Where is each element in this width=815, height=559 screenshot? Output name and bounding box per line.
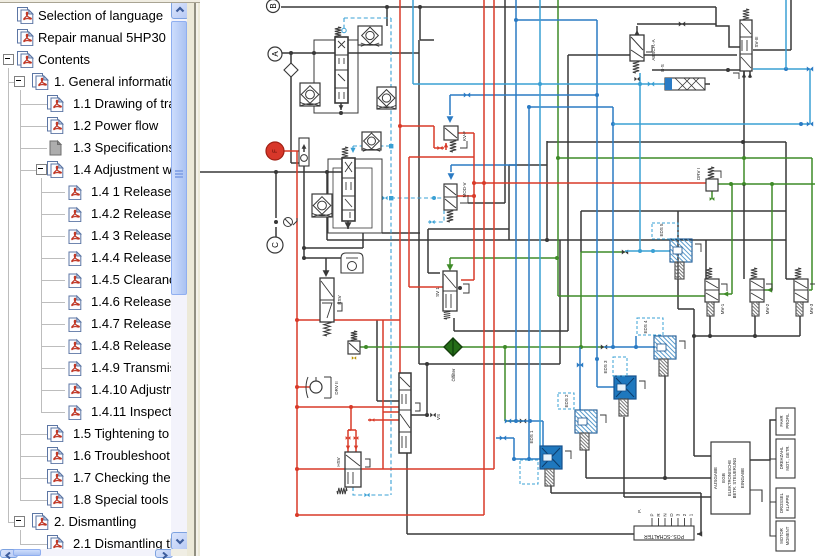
- wire y=240 long bus: [327, 239, 786, 241]
- wire cyan x=540: [539, 0, 541, 459]
- svg-text:EDS 5: EDS 5: [659, 223, 664, 237]
- check box CB5: [362, 132, 381, 150]
- wire SV1 drain to y=331: [453, 318, 455, 331]
- node B: [267, 0, 280, 13]
- valve 1 spool: [335, 37, 348, 103]
- info box FAHR PROFIL: [776, 408, 795, 435]
- wire dashed valve2 pilot y=146: [353, 145, 391, 147]
- top window border: [0, 0, 200, 3]
- svg-text:POS.-SCHALTER: POS.-SCHALTER: [644, 533, 684, 539]
- wire x=678: [677, 211, 679, 309]
- wire dashed MOD-V pilot: [428, 210, 444, 222]
- wire EGB right connectors: [750, 420, 776, 460]
- check box CB4: [312, 194, 332, 217]
- svg-text:DREHZAHL: DREHZAHL: [779, 446, 784, 469]
- wire y=142: [547, 141, 786, 143]
- wire MV-3 top: [785, 142, 787, 279]
- svg-text:EINGABE: EINGABE: [740, 468, 745, 488]
- wire enclosure ext y=233: [382, 232, 420, 234]
- solenoid valve EDS 4: [654, 336, 676, 359]
- valve DRV I: [706, 179, 718, 191]
- wire y=258: [304, 257, 341, 259]
- wire red x=494: [493, 0, 495, 469]
- wire SV1 right port: [458, 286, 462, 290]
- pump DRV II: [310, 381, 322, 393]
- wire MV-1 arm: [709, 316, 711, 336]
- wire red y=148 KV-F: [434, 147, 444, 149]
- svg-text:R: R: [656, 513, 661, 517]
- svg-text:A: A: [271, 51, 280, 57]
- wire blue x=529: [528, 107, 530, 459]
- wire x=304 drop: [303, 166, 305, 258]
- check box CB2: [300, 83, 320, 106]
- wire VS stub: [426, 364, 428, 415]
- wire red x=484: [483, 0, 485, 515]
- wire red F out: [284, 150, 299, 152]
- wire y=493: [551, 492, 701, 494]
- solenoid valve EDS 5: [670, 239, 692, 262]
- wire blue y=421: [508, 420, 543, 422]
- wire SV-III drain x=744 dark: [743, 70, 745, 158]
- wire blue KV-F arrow: [449, 95, 451, 115]
- F check component: [299, 138, 309, 166]
- wire green x=505: [504, 347, 506, 421]
- wire EDS3 arm drop: [623, 417, 625, 497]
- svg-text:VS: VS: [436, 414, 441, 420]
- solenoid valve EDS 1: [540, 446, 562, 469]
- wire green SV1 arrow: [449, 258, 451, 266]
- svg-text:2: 2: [682, 513, 687, 516]
- wire blue EDS2 feed x=580: [579, 347, 581, 410]
- wire x=419 long: [418, 40, 420, 364]
- wire x=327: [326, 172, 328, 240]
- valve 2 spool: [342, 158, 355, 221]
- wire HD drain x=407: [406, 453, 408, 534]
- wire RSV feed arrow: [325, 258, 327, 273]
- svg-text:EGB: EGB: [721, 473, 726, 483]
- main pressure valve HD: [399, 373, 411, 453]
- solenoid valve MV-2: [750, 279, 764, 302]
- check box CB3: [377, 87, 396, 109]
- valve KV-F: [444, 126, 458, 140]
- oil filter diamond: [444, 338, 462, 356]
- wire red y=196 MOD-V: [457, 195, 474, 197]
- wire y=229: [428, 228, 509, 230]
- wire green main y=347: [360, 346, 604, 348]
- svg-text:B-S: B-S: [660, 64, 665, 72]
- wire SV-III right top x=791: [790, 0, 792, 50]
- svg-text:MV-3: MV-3: [809, 303, 814, 314]
- wire x=744 to MV-2 top: [743, 184, 745, 279]
- wire red x=400: [399, 0, 401, 373]
- wire dashed y=198: [391, 197, 444, 199]
- wire blue y=20: [516, 19, 597, 21]
- svg-text:MV-2: MV-2: [765, 303, 770, 314]
- wire red x=383: [382, 320, 384, 469]
- wire x=744 green link: [743, 158, 745, 184]
- svg-text:MOD-V: MOD-V: [462, 183, 467, 198]
- wire red trunk x=297: [296, 166, 298, 515]
- wire green y=158: [558, 157, 812, 159]
- valve 1 drain: [340, 103, 342, 110]
- svg-text:MOTOR: MOTOR: [779, 528, 784, 544]
- valve WK: [348, 341, 360, 354]
- info box DROSSELKLAPPE: [776, 488, 795, 518]
- svg-text:DROSSEL: DROSSEL: [779, 492, 784, 513]
- wire y=309: [678, 308, 694, 310]
- wire blue stub y=438: [496, 437, 514, 439]
- svg-text:SV-III: SV-III: [754, 36, 759, 47]
- wire red y=126: [400, 125, 434, 127]
- wire green x=581: [580, 252, 582, 347]
- wire SV-III left drain y=70: [652, 69, 740, 71]
- wire cyan x=413: [412, 0, 414, 84]
- node A: [268, 47, 282, 61]
- wire y=55 to SV-III: [568, 54, 737, 56]
- valve 1 spring: [335, 27, 341, 37]
- wire blue EDS4 feed y=347: [604, 346, 655, 348]
- wire dashed valve1 pilot: [343, 18, 345, 28]
- svg-text:PROFIL: PROFIL: [785, 413, 790, 429]
- solenoid valve MV-1: [705, 279, 719, 302]
- wire blue y=95 KV-F feed: [450, 94, 597, 96]
- wire green DRV I drain: [711, 191, 713, 199]
- HD bracket: [415, 403, 420, 411]
- svg-text:MOT., GETR.: MOT., GETR.: [785, 445, 790, 470]
- wire sump line y=534: [407, 533, 634, 535]
- breather symbol above C: [284, 218, 293, 227]
- wire A-line y=53: [282, 52, 419, 54]
- valve SV-III: [740, 20, 752, 71]
- valve RSV bracket: [337, 303, 342, 311]
- wire EDS2 arm drop: [585, 450, 587, 478]
- wire y=248: [304, 247, 363, 249]
- wire red y=469: [297, 468, 494, 470]
- svg-text:MOMENT: MOMENT: [785, 526, 790, 545]
- svg-text:B: B: [269, 3, 278, 8]
- wire green DRV I out y=184: [718, 183, 815, 185]
- wire stub x=387: [386, 7, 388, 26]
- wire y=172: [200, 171, 342, 173]
- wire B to SV-III elbow: [716, 7, 740, 47]
- wire MV-2 arm: [754, 316, 756, 336]
- wire blue y=459 EDS1 feed: [514, 458, 540, 460]
- svg-text:DRV II: DRV II: [334, 381, 339, 394]
- wire x=581 upper: [580, 211, 582, 252]
- wire green y=421: [505, 420, 523, 422]
- info box MOTORMOMENT: [776, 521, 795, 551]
- wire blue y=69: [753, 68, 810, 70]
- wire red HSV pilots: [350, 407, 352, 430]
- svg-text:P: P: [650, 513, 655, 516]
- wire x=505: [504, 0, 506, 203]
- wire blue x=636 pilot: [635, 336, 637, 347]
- vertical scrollbar: [171, 0, 187, 549]
- wire red y=157: [409, 156, 474, 158]
- wire blue x=516: [515, 0, 517, 421]
- wire red y=183 to DRV I: [474, 182, 706, 184]
- wire red HD stubs: [383, 411, 399, 413]
- svg-text:Ölfilter: Ölfilter: [450, 368, 456, 382]
- wire green y=252 EDS5 feed: [581, 251, 625, 253]
- wire node C riser x=276: [275, 172, 277, 218]
- svg-text:KV-F: KV-F: [462, 131, 467, 141]
- wire red y=515: [297, 514, 484, 516]
- svg-text:EDS 4: EDS 4: [643, 320, 648, 334]
- solenoid valve MV-3: [794, 279, 808, 302]
- node F: [266, 142, 284, 160]
- wire x=509: [508, 165, 510, 240]
- svg-text:N: N: [663, 513, 668, 516]
- wire dashed HSV pilot: [353, 487, 391, 495]
- valve MOD-V: [444, 184, 457, 210]
- wire y=364: [419, 363, 560, 365]
- wire blue y=107: [529, 106, 613, 108]
- svg-text:FAHR: FAHR: [779, 415, 784, 426]
- wire y=478 to EGB: [586, 477, 711, 479]
- svg-text:HSV: HSV: [336, 457, 341, 466]
- wire green x=558: [557, 0, 559, 296]
- svg-text:D: D: [669, 513, 674, 517]
- wire blue x=786 top: [785, 0, 787, 69]
- svg-text:EDS 2: EDS 2: [564, 394, 569, 408]
- horizontal scrollbar: [0, 549, 171, 556]
- node C: [267, 237, 283, 253]
- wire MV-3 arm: [799, 316, 801, 336]
- valve HSV: [345, 452, 361, 487]
- wire green x=732 to MV-1: [731, 184, 733, 294]
- wire cyan y=251 EDS5 feed: [625, 250, 670, 252]
- wire green y=258 SV1 feed: [450, 257, 558, 259]
- wire EDS1 arm drop: [550, 485, 552, 493]
- svg-text:BETR. STEUERUNG: BETR. STEUERUNG: [732, 457, 737, 498]
- position switch POS.-SCHALTER: [634, 526, 694, 540]
- wire MV solenoid bus y=336: [694, 335, 800, 337]
- wire A branch down x=291: [290, 53, 292, 163]
- wire red y=320: [297, 319, 400, 321]
- wire x=694 to EGB: [693, 309, 695, 456]
- wire red x=434 KV-F: [433, 126, 435, 148]
- wire blue x=613: [612, 107, 614, 347]
- wire blue EDS3 feed y=387: [597, 386, 614, 388]
- wire x=560: [559, 240, 561, 364]
- wire red y=407: [297, 406, 399, 408]
- wire stub x=420: [419, 7, 421, 40]
- wire blue x=810: [809, 69, 811, 124]
- svg-text:KLAPPE: KLAPPE: [785, 495, 790, 512]
- svg-text:AUSGABE: AUSGABE: [713, 467, 718, 489]
- wire red DRV II stub: [297, 386, 310, 388]
- svg-text:3: 3: [676, 513, 681, 516]
- wire x=547: [546, 141, 548, 240]
- valve SV 1: [443, 271, 457, 311]
- solenoid valve EDS 3: [614, 376, 636, 399]
- svg-text:MV-1: MV-1: [720, 303, 725, 314]
- info box DREHZAHL: [776, 439, 795, 478]
- wire x=377 RSV to HD: [376, 320, 378, 401]
- svg-text:EDS 1: EDS 1: [529, 430, 534, 444]
- wire POS link: [697, 533, 701, 535]
- svg-text:1: 1: [689, 513, 694, 516]
- wire valve2 drain: [347, 221, 349, 229]
- svg-text:DRV I: DRV I: [696, 168, 701, 180]
- panel separator: [187, 0, 200, 556]
- wire red y=280 SV1: [461, 279, 474, 281]
- wire y=211: [581, 210, 786, 212]
- valve 2 enclosure: [328, 159, 382, 233]
- wire B-line y=7: [281, 6, 716, 8]
- ECU box EGB: [711, 442, 750, 514]
- valve ABSCH.-A: [630, 35, 644, 61]
- wire blue x=597: [596, 20, 598, 387]
- svg-text:SV 1: SV 1: [435, 287, 440, 297]
- wire MV-1 top: [705, 240, 707, 279]
- accumulator D-S: [665, 78, 705, 90]
- hydraulic schematic ZF 5HP30: [200, 0, 815, 556]
- wire EDS4 arm drop: [664, 375, 666, 478]
- svg-text:C: C: [271, 242, 280, 248]
- converter symbol: [341, 253, 363, 273]
- wire blue MOD-V feed y=165: [451, 164, 517, 166]
- valve 2 spring: [342, 147, 348, 158]
- wire cyan y=84: [413, 83, 665, 85]
- wire red x=474: [473, 133, 475, 280]
- svg-text:ABSCH.-A: ABSCH.-A: [651, 39, 656, 60]
- wire ABSCH top line y=24: [637, 23, 716, 25]
- valve 2 inner frame: [333, 168, 372, 228]
- svg-text:EDS 3: EDS 3: [603, 360, 608, 374]
- wire blue MOD-V arrow: [450, 165, 452, 172]
- valve RSV spring: [324, 322, 330, 336]
- wire blue y=124: [613, 123, 810, 125]
- wire green x=812 to MV-3: [811, 158, 813, 290]
- wire green y=296: [558, 295, 705, 297]
- wire red x=409: [408, 157, 410, 287]
- wire red KV-F out y=133: [458, 132, 474, 134]
- wire cyan x=640 EDS5: [639, 73, 641, 251]
- valve 1 (selector) enclosure: [314, 40, 358, 113]
- check box CB1: [358, 26, 382, 45]
- wire SV1 left feed: [427, 229, 429, 273]
- valve RSV: [320, 278, 334, 322]
- svg-text:P.: P.: [637, 509, 642, 513]
- wire dashed y=18: [344, 17, 391, 19]
- diamond junction near A: [284, 63, 298, 77]
- svg-text:F: F: [273, 149, 279, 153]
- wire dashed pilot x=391: [390, 18, 392, 495]
- wire blue x=543: [542, 421, 544, 459]
- wire green x=772 to MV-2: [771, 184, 773, 290]
- wire y=497 to EGB: [624, 496, 711, 498]
- solenoid valve EDS 2: [575, 410, 597, 433]
